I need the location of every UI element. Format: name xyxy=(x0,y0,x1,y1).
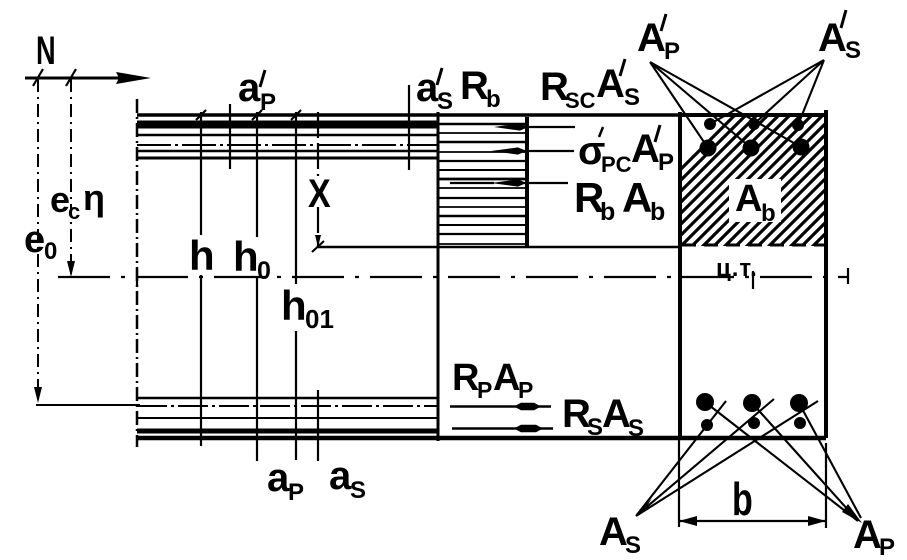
svg-text:A: A xyxy=(602,392,631,436)
svg-text:0: 0 xyxy=(44,238,57,265)
dimension line h0 xyxy=(256,112,258,461)
tick a-prime-s through top band xyxy=(408,85,410,170)
Rb block right boundary xyxy=(525,117,529,246)
svg-text:P: P xyxy=(288,479,304,506)
cross-section left edge xyxy=(678,112,682,438)
dimension line e0 xyxy=(34,79,42,403)
tick a_s below bottom band xyxy=(317,390,319,461)
dimension line h01 xyxy=(295,112,297,460)
svg-text:P: P xyxy=(658,149,674,176)
label sigma_pc A-prime-p xyxy=(578,125,674,177)
Rb hatched block horizontal hatch xyxy=(439,124,527,244)
tick on N line at ec line xyxy=(66,69,76,86)
label a-prime-s xyxy=(416,66,453,115)
tick a-prime-p through top band xyxy=(229,104,231,169)
svg-text:c: c xyxy=(68,199,80,224)
b dimension extension line left xyxy=(678,440,680,527)
leader fan from A-prime-p to tendon dots xyxy=(650,62,801,148)
svg-text:A: A xyxy=(599,510,628,554)
svg-text:ц.т.: ц.т. xyxy=(716,255,758,282)
label b xyxy=(732,473,753,525)
label Rb Ab xyxy=(574,174,665,226)
svg-text:X: X xyxy=(308,170,331,215)
label h01 xyxy=(281,282,334,334)
label e0 xyxy=(24,219,57,265)
svg-text:h: h xyxy=(233,233,259,280)
leader fan from A-prime-s to rebar dots xyxy=(710,60,824,125)
slant ticks on top edge at dimension lines xyxy=(196,110,301,120)
beam top edge (side view) xyxy=(137,113,678,117)
svg-text:S: S xyxy=(625,532,641,555)
svg-text:P: P xyxy=(518,377,533,403)
b dimension line with arrowheads xyxy=(679,516,826,526)
force arrow Rb Ab xyxy=(450,179,568,186)
label As (bottom) xyxy=(599,510,641,559)
label Ap (bottom) xyxy=(853,513,895,560)
svg-text:P: P xyxy=(664,38,680,65)
label Rb (top row) xyxy=(460,64,501,113)
force N arrow xyxy=(25,72,151,84)
svg-text:b: b xyxy=(486,86,501,113)
top big tendon dots A-prime-p xyxy=(700,139,810,157)
label h0 xyxy=(233,233,271,285)
label N xyxy=(36,29,56,73)
label a-prime-p xyxy=(238,66,276,116)
label A-prime-s (top) xyxy=(818,10,861,64)
svg-text:a: a xyxy=(267,456,290,500)
force arrow sigma_pc Ap xyxy=(491,147,574,154)
tick at right end of centroid axis xyxy=(847,268,849,284)
compression zone bottom line xyxy=(318,246,678,249)
small cross tick under c.t. label xyxy=(752,271,754,289)
label Ab xyxy=(735,178,776,227)
svg-text:S: S xyxy=(845,37,861,64)
svg-text:A: A xyxy=(596,62,625,106)
svg-text:R: R xyxy=(460,64,489,108)
svg-text:SC: SC xyxy=(565,88,596,113)
top reinforcement band lines xyxy=(137,125,438,159)
dimension line h xyxy=(200,112,202,446)
centroid axis dash-dot line xyxy=(58,276,848,278)
svg-text:P: P xyxy=(879,534,895,555)
svg-text:a: a xyxy=(329,454,352,498)
tick crossing centroid axis at beam left edge xyxy=(136,269,138,286)
svg-text:b: b xyxy=(761,200,776,227)
force arrow Rsc As xyxy=(494,123,575,130)
label Rsc A-prime-s (top row) xyxy=(540,59,640,113)
leader fan from As to bottom rebar dots xyxy=(636,399,818,516)
beam left edge (side view, dash-dot) xyxy=(136,99,139,447)
svg-text:b: b xyxy=(600,198,615,226)
label a_p xyxy=(267,456,304,506)
cross-section top edge xyxy=(678,113,828,117)
leader fan from Ap to bottom tendon dots xyxy=(705,402,861,521)
label X xyxy=(308,170,331,215)
svg-text:A: A xyxy=(631,127,660,171)
svg-text:A: A xyxy=(735,178,762,220)
svg-text:h: h xyxy=(281,282,307,329)
tick on N line at e0 line xyxy=(33,69,43,86)
svg-text:S: S xyxy=(350,477,366,504)
svg-text:S: S xyxy=(437,88,453,115)
label ec eta xyxy=(50,177,105,224)
svg-text:a: a xyxy=(416,66,439,110)
svg-text:R: R xyxy=(452,357,479,399)
svg-text:S: S xyxy=(624,84,640,111)
beam bottom edge xyxy=(137,436,826,441)
svg-text:h: h xyxy=(189,232,215,279)
svg-text:P: P xyxy=(260,89,276,116)
svg-text:b: b xyxy=(650,198,665,226)
svg-text:a: a xyxy=(238,66,261,110)
svg-text:e: e xyxy=(24,219,45,261)
label Rs As xyxy=(562,392,644,442)
b dimension extension line right xyxy=(825,443,827,528)
svg-text:b: b xyxy=(732,473,753,525)
dimension line ec-eta xyxy=(67,79,75,277)
label Rp Ap xyxy=(452,357,533,403)
svg-text:S: S xyxy=(628,415,644,442)
svg-text:A: A xyxy=(637,16,666,60)
svg-text:A: A xyxy=(622,174,652,221)
label A-prime-p (top) xyxy=(637,14,680,65)
beam side view right edge xyxy=(437,112,440,441)
white box for Ab label xyxy=(729,179,781,222)
svg-text:01: 01 xyxy=(305,304,334,334)
bottom reinforcement band lines xyxy=(137,398,438,431)
svg-text:P: P xyxy=(477,377,492,403)
cross-section right edge xyxy=(824,110,828,438)
force arrow Rs As xyxy=(452,425,553,432)
force arrow Rp Ap xyxy=(450,403,551,410)
diagonal hatch of compression area xyxy=(600,110,907,250)
label a_s xyxy=(329,454,366,504)
bottom small rebar dots As xyxy=(701,417,806,431)
svg-text:0: 0 xyxy=(257,257,271,285)
hatch bottom dashed boundary xyxy=(682,244,826,247)
svg-text:S: S xyxy=(587,414,603,441)
svg-text:N: N xyxy=(36,29,56,73)
top small rebar dots A-prime-s xyxy=(704,118,804,131)
bottom big tendon dots Ap xyxy=(696,393,808,412)
svg-text:A: A xyxy=(493,357,520,399)
svg-text:η: η xyxy=(83,177,105,218)
bottom tendon level line out to e0 arrow xyxy=(36,404,140,406)
dimension X line xyxy=(312,112,324,252)
